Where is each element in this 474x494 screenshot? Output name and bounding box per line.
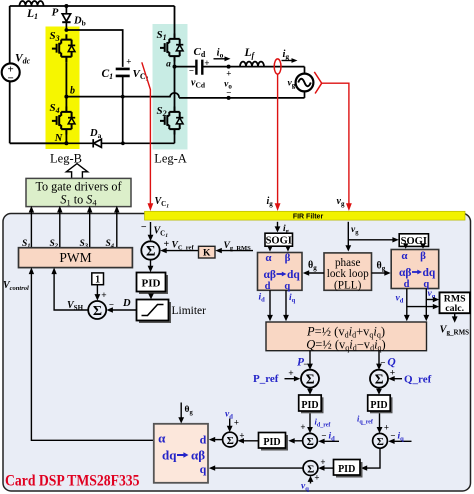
wire Vcontrol feedback: [31, 272, 153, 441]
svg-text:PID: PID: [338, 464, 355, 475]
source Vdc: [2, 63, 20, 84]
PID4 block: [368, 395, 393, 413]
constant 1 box: [92, 273, 104, 285]
svg-text:+: +: [126, 57, 131, 67]
capacitor Cd: [196, 60, 202, 75]
svg-text:calc.: calc.: [445, 303, 464, 314]
dq to ab block: [154, 424, 208, 483]
wire Q to sigma4: [378, 351, 380, 367]
svg-text:+: +: [288, 369, 293, 379]
wire S3 to b to S4: [65, 62, 67, 106]
svg-text:αβ: αβ: [399, 267, 411, 279]
svg-text:K: K: [203, 249, 211, 259]
wire sigma7 to q port: [212, 467, 303, 469]
block arrow to gate drivers: [66, 164, 87, 179]
wire K to sigma1: [165, 250, 199, 252]
svg-text:−: −: [109, 299, 114, 309]
svg-text:β: β: [285, 252, 291, 264]
wire P to sigma3: [309, 351, 311, 367]
svg-text:Q_ref: Q_ref: [404, 374, 432, 386]
svg-text:+: +: [239, 431, 244, 441]
sensor CT red ellipse: [274, 59, 281, 74]
svg-text:Σ: Σ: [307, 436, 314, 448]
svg-text:+: +: [384, 423, 389, 433]
svg-text:P: P: [52, 7, 59, 19]
svg-text:S1 to S4: S1 to S4: [60, 193, 97, 208]
svg-text:a: a: [166, 60, 171, 70]
summer sigma5 id loop: [303, 433, 318, 448]
Leg-A cyan highlight: [153, 24, 188, 150]
wire PID4 to sigma6: [379, 413, 381, 430]
wire Vg_RMS to K: [220, 250, 254, 252]
wire PLL theta to left box: [307, 272, 325, 274]
inductor L1: [20, 1, 44, 6]
svg-text:α: α: [265, 252, 272, 264]
wire sigma-a to d port: [212, 439, 223, 441]
svg-text:D: D: [122, 298, 131, 309]
gate drivers green box: [26, 178, 131, 206]
wire ig into SOGI1: [277, 222, 279, 229]
PIDb block: [334, 460, 363, 478]
ab-dq block left: [258, 253, 303, 291]
node vo- junction dot: [227, 96, 231, 100]
wire sigma3 to PID3: [309, 388, 311, 392]
svg-text:dq: dq: [287, 269, 300, 281]
source vg grid: [296, 74, 314, 92]
svg-text:Σ: Σ: [306, 372, 315, 387]
wire S4 to N: [65, 135, 67, 144]
svg-text:q: q: [284, 281, 290, 292]
svg-text:+: +: [234, 418, 239, 428]
svg-text:PID: PID: [370, 400, 387, 411]
wire vq branch to RMS: [426, 299, 436, 301]
svg-text:−: −: [141, 222, 147, 233]
svg-text:−: −: [380, 358, 385, 368]
svg-text:+: +: [204, 58, 209, 68]
wire VSH feedback to PWM: [54, 272, 88, 311]
PLL block: [324, 253, 372, 290]
wire PIDa to sigma-a: [241, 440, 259, 442]
svg-text:β: β: [420, 250, 426, 262]
svg-text:Σ: Σ: [307, 463, 314, 475]
node Da anode junction: [121, 141, 125, 145]
sensor VC1 red line: [142, 62, 151, 203]
svg-text:FIR Filter: FIR Filter: [293, 213, 324, 220]
sensor ig red line: [277, 74, 279, 203]
svg-text:N: N: [54, 133, 63, 144]
wire b rail with hop over leg-A: [66, 91, 304, 98]
node b junction dot: [64, 95, 68, 99]
wires PWM to gate drivers S1-S4: [31, 211, 116, 248]
wire PIDb to sigma7: [321, 467, 333, 469]
wire Q_ref to sigma4: [392, 378, 403, 380]
node vo+ junction dot: [227, 65, 231, 69]
svg-text:−: −: [8, 73, 14, 85]
PID3 block: [299, 395, 324, 413]
svg-text:lock loop: lock loop: [327, 268, 369, 280]
SOGI2 block: [399, 234, 428, 247]
capacitor C1: [116, 69, 130, 97]
wire P_ref to sigma3: [285, 378, 298, 380]
svg-text:dq: dq: [423, 267, 436, 279]
wire limiter to sigma2: [111, 309, 137, 311]
svg-text:q: q: [200, 462, 207, 476]
svg-text:−: −: [321, 431, 326, 441]
svg-text:α: α: [158, 431, 166, 446]
wire sigma5 to PIDa: [292, 440, 303, 442]
limiter block: [137, 300, 172, 324]
ab-dq block right: [391, 250, 439, 289]
FIR filter yellow bar: [145, 211, 466, 220]
wires SOGI2 to ab-dq right: [406, 245, 423, 247]
wire RMS out: [454, 313, 456, 319]
Leg-B yellow highlight: [46, 27, 80, 150]
svg-text:(PLL): (PLL): [334, 279, 362, 291]
stub minus id into sigma5: [322, 440, 340, 442]
svg-text:d: d: [404, 279, 410, 290]
svg-text:Σ: Σ: [375, 372, 384, 387]
wire a to Cd: [175, 66, 196, 68]
svg-text:α: α: [401, 250, 408, 262]
diode Da: [93, 139, 101, 147]
wire vd branch to RMS: [407, 306, 436, 308]
summer sigma-a vd ff: [223, 432, 238, 447]
svg-text:−: −: [390, 431, 395, 441]
node between Db and S3: [65, 28, 69, 32]
RMS calc block: [440, 292, 471, 313]
svg-text:+: +: [314, 473, 319, 483]
svg-text:SOGI: SOGI: [266, 236, 292, 247]
wire vg branch to SOGI2: [348, 239, 395, 241]
PIDa block: [259, 433, 289, 451]
summer sigma3 P loop: [301, 370, 319, 388]
DSP card panel: [3, 214, 471, 492]
stub theta g into dq-ab: [180, 403, 182, 421]
PID1 block: [137, 273, 169, 295]
svg-text:Σ: Σ: [146, 244, 155, 260]
node C1 bottom junction: [121, 95, 125, 99]
wire branch to C1: [66, 30, 122, 67]
svg-text:+: +: [390, 369, 395, 379]
svg-text:αβ: αβ: [191, 448, 205, 463]
wire PLL theta to right box: [372, 272, 388, 274]
inductor Lf: [240, 62, 264, 67]
wire Lf to grid: [240, 67, 305, 74]
wire 1 to sigma2: [96, 285, 98, 298]
wire b rail to Da rail link: [122, 97, 124, 144]
wires id iq down to PQ: [270, 290, 286, 318]
SOGI1 block: [265, 233, 293, 246]
svg-text:Σ: Σ: [377, 436, 384, 448]
wire sigma1 to PID1: [150, 260, 152, 270]
svg-text:PID: PID: [142, 278, 161, 290]
transistor S4: [52, 107, 75, 135]
svg-text:Card DSP TMS28F335: Card DSP TMS28F335: [5, 473, 140, 490]
svg-text:+: +: [300, 422, 305, 432]
svg-text:−: −: [303, 359, 308, 369]
transistor S1: [160, 34, 183, 62]
svg-text:phase: phase: [335, 257, 361, 269]
svg-text:Q: Q: [387, 357, 395, 369]
wire sigma6 down to PIDb: [364, 448, 380, 468]
wire PID1 to limiter: [150, 294, 152, 297]
node a junction dot: [173, 65, 177, 69]
wire vg into PLL: [347, 222, 349, 248]
wire sigma4 to PID4: [378, 388, 380, 392]
svg-text:PID: PID: [263, 437, 280, 448]
transistor S2: [160, 107, 183, 135]
summer sigma1 VC1 loop: [141, 222, 159, 260]
svg-text:dq: dq: [162, 448, 177, 463]
gain K box: [199, 246, 216, 258]
PWM block: [19, 248, 133, 268]
node P junction dot: [64, 4, 68, 8]
wire leg-A top lead: [174, 6, 176, 34]
svg-text:+: +: [320, 457, 325, 467]
wire Cd to output node: [202, 66, 240, 68]
svg-text:P_ref: P_ref: [253, 373, 279, 385]
wires vd vq down to PQ: [407, 289, 427, 319]
wires SOGI1 to ab-dq: [270, 246, 288, 248]
svg-text:Σ: Σ: [93, 304, 102, 319]
transistor S3: [52, 34, 75, 62]
svg-text:+: +: [226, 68, 231, 78]
stub vd into sigma-a: [229, 419, 231, 430]
stub minus iq into sigma6: [392, 440, 412, 442]
svg-text:αβ: αβ: [264, 269, 276, 281]
node N junction dot: [64, 141, 68, 145]
svg-text:Limiter: Limiter: [172, 305, 207, 317]
PQ computation block: [266, 322, 427, 351]
svg-text:PWM: PWM: [59, 250, 91, 265]
svg-text:Σ: Σ: [227, 435, 234, 447]
svg-text:To gate drivers of: To gate drivers of: [35, 180, 122, 194]
stub vq into sigma7: [310, 479, 312, 484]
svg-text:−: −: [189, 66, 194, 76]
wire S1 to a to S2: [174, 62, 176, 107]
sensor vg red hook and line: [314, 72, 321, 94]
wire PID3 to sigma5: [309, 413, 311, 430]
summer sigma7 vq ff: [303, 461, 318, 476]
wire bottom rail through Da: [66, 135, 174, 144]
svg-text:Leg-A: Leg-A: [154, 152, 187, 166]
svg-text:b: b: [70, 86, 75, 97]
svg-text:1: 1: [95, 275, 100, 286]
svg-text:+: +: [101, 291, 106, 301]
svg-text:PID: PID: [301, 400, 318, 411]
wire top rail P node rail: [10, 6, 175, 143]
svg-text:−: −: [226, 88, 231, 98]
summer sigma4 Q loop: [370, 370, 388, 388]
summer sigma2 VSH: [88, 301, 106, 319]
diode Db: [62, 6, 70, 30]
summer sigma6 iq loop: [373, 433, 388, 448]
svg-text:d: d: [200, 433, 207, 447]
